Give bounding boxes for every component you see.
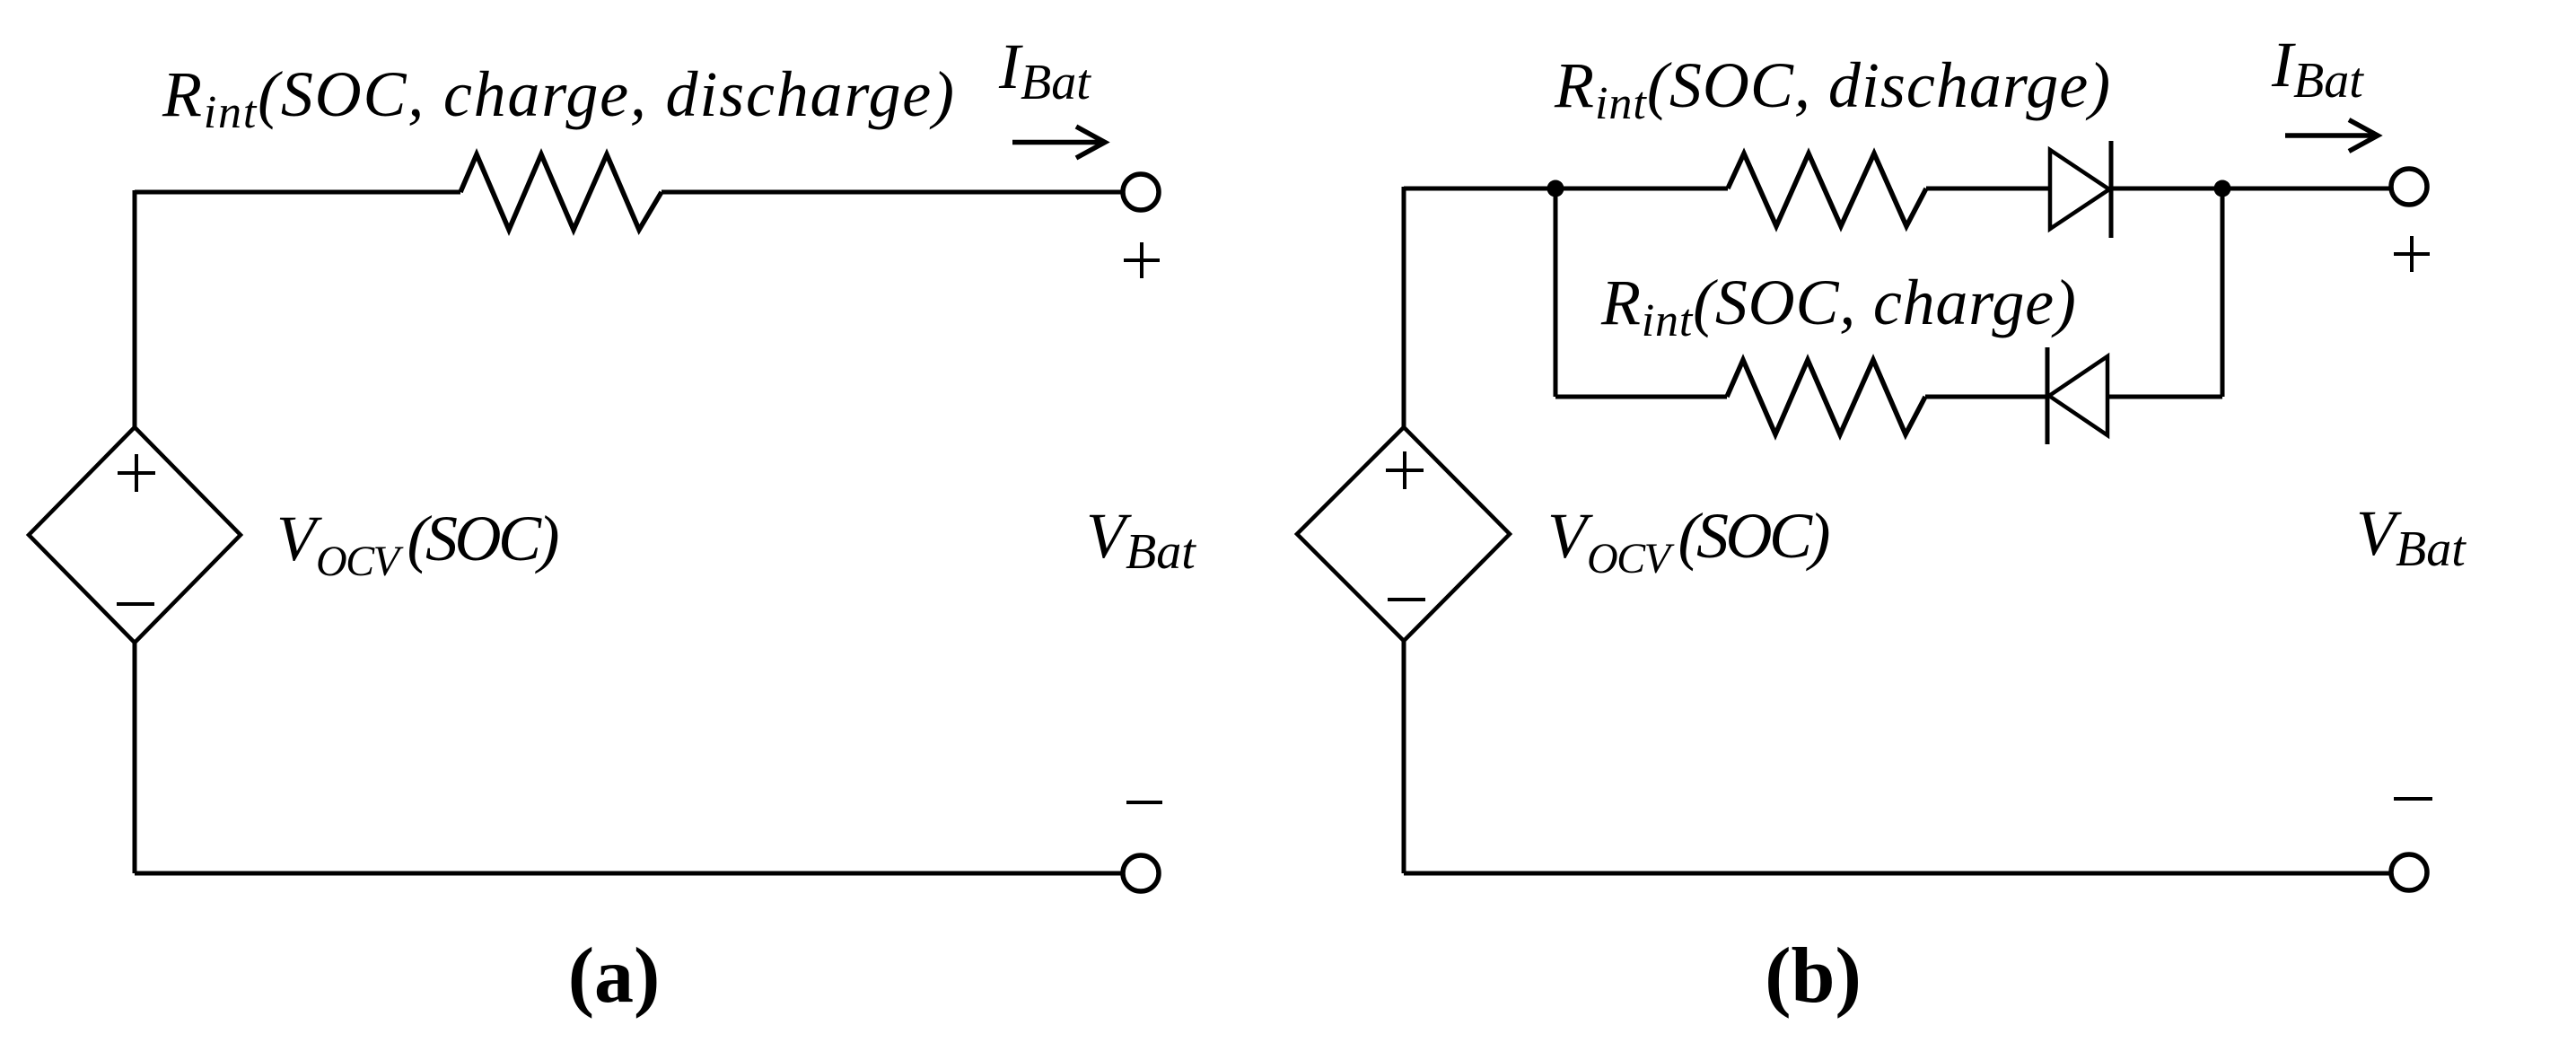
label Rint(SOC, discharge) — [1554, 49, 2111, 129]
wire: (b) branch vertical below left junction — [1554, 188, 1558, 397]
label VOCV(SOC) (b) — [1547, 500, 1828, 582]
dependent source VOCV (b) diamond — [1297, 427, 1510, 641]
label - inside (a) source — [117, 602, 154, 606]
label IBat (a) — [998, 31, 1091, 110]
dependent source VOCV (a) diamond — [29, 427, 241, 643]
node A: junction dot left (b) — [1547, 180, 1564, 197]
label VBat (a) — [1086, 500, 1196, 580]
resistor Rint charge (b) — [1727, 360, 1925, 434]
label Rint(SOC, charge, discharge) — [162, 58, 956, 138]
wire: (a) top horizontal from resistor to + terminal — [662, 190, 1121, 195]
label - at (b) negative terminal — [2394, 797, 2432, 801]
label VBat (b) — [2356, 497, 2466, 577]
label IBat (b) — [2271, 29, 2364, 109]
wire: (b) top from resistor to diode — [1926, 187, 2050, 191]
svg-text:Rint(SOC, charge, discharge): Rint(SOC, charge, discharge) — [162, 58, 956, 138]
wire: (b) right vertical up to right junction — [2221, 188, 2225, 397]
caption (a) — [568, 933, 661, 1020]
wire: (b) lower branch horizontal to resistor — [1555, 395, 1727, 399]
wire: (a) left vertical from source down to bottom wire — [133, 643, 137, 873]
wire: (b) lower branch from diode to right vertical — [2107, 395, 2222, 399]
label + at (a) positive terminal — [1124, 242, 1160, 278]
label - inside (b) source — [1388, 598, 1425, 601]
wire: (b) left vertical from source down to bottom wire — [1402, 641, 1406, 873]
node B: junction dot right (b) — [2214, 180, 2231, 197]
resistor Rint discharge (b) — [1728, 153, 1926, 226]
resistor Rint (a) — [460, 154, 662, 230]
wire: (b) top horizontal from source to resistor — [1404, 187, 1728, 191]
svg-text:(a): (a) — [568, 933, 661, 1020]
arrow: current direction IBat (b) — [2285, 120, 2378, 152]
node: (a) + terminal circle — [1123, 174, 1159, 210]
svg-text:(b): (b) — [1765, 933, 1862, 1020]
diode D2 (charge, pointing left) — [2047, 347, 2107, 444]
wire: (a) top-left horizontal from source to resistor — [135, 190, 460, 195]
label + inside (b) source — [1386, 451, 1424, 489]
wire: (a) left vertical from top wire down to source — [133, 190, 137, 427]
label + inside (a) source — [118, 454, 155, 492]
caption (b) — [1765, 933, 1862, 1020]
node: (b) - terminal circle — [2391, 854, 2427, 890]
arrow: current direction IBat (a) — [1012, 127, 1105, 158]
label + at (b) positive terminal — [2394, 236, 2430, 272]
diode D1 (discharge, pointing right) — [2050, 141, 2111, 238]
node: (b) + terminal circle — [2391, 169, 2427, 205]
wire: (b) bottom horizontal to - terminal — [1404, 871, 2389, 876]
label Rint(SOC, charge) — [1600, 267, 2077, 346]
label - at (a) negative terminal — [1126, 801, 1162, 804]
wire: (b) top from diode to + terminal — [2111, 187, 2389, 191]
wire: (b) lower branch from resistor to diode — [1925, 395, 2047, 399]
label VOCV(SOC) (a) — [276, 503, 557, 585]
wire: (b) left vertical from top wire down to source — [1402, 187, 1406, 427]
node: (a) - terminal circle — [1123, 855, 1159, 891]
wire: (a) bottom horizontal to - terminal — [135, 871, 1121, 876]
